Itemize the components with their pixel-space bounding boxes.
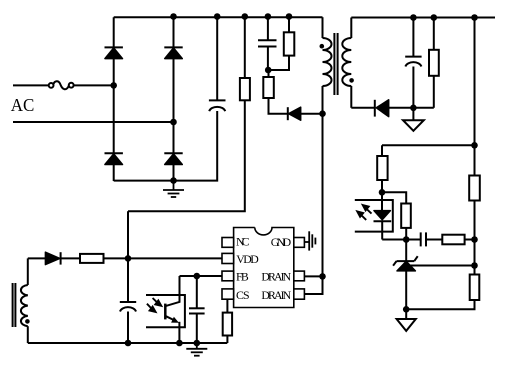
svg-text:DRAIN: DRAIN: [261, 269, 291, 283]
svg-text:AC: AC: [11, 95, 35, 115]
svg-text:VDD: VDD: [236, 252, 259, 266]
svg-text:FB: FB: [236, 269, 249, 283]
svg-text:NC: NC: [236, 235, 250, 249]
svg-text:CS: CS: [236, 288, 250, 302]
svg-text:GND: GND: [271, 235, 292, 249]
svg-text:DRAIN: DRAIN: [261, 288, 291, 302]
